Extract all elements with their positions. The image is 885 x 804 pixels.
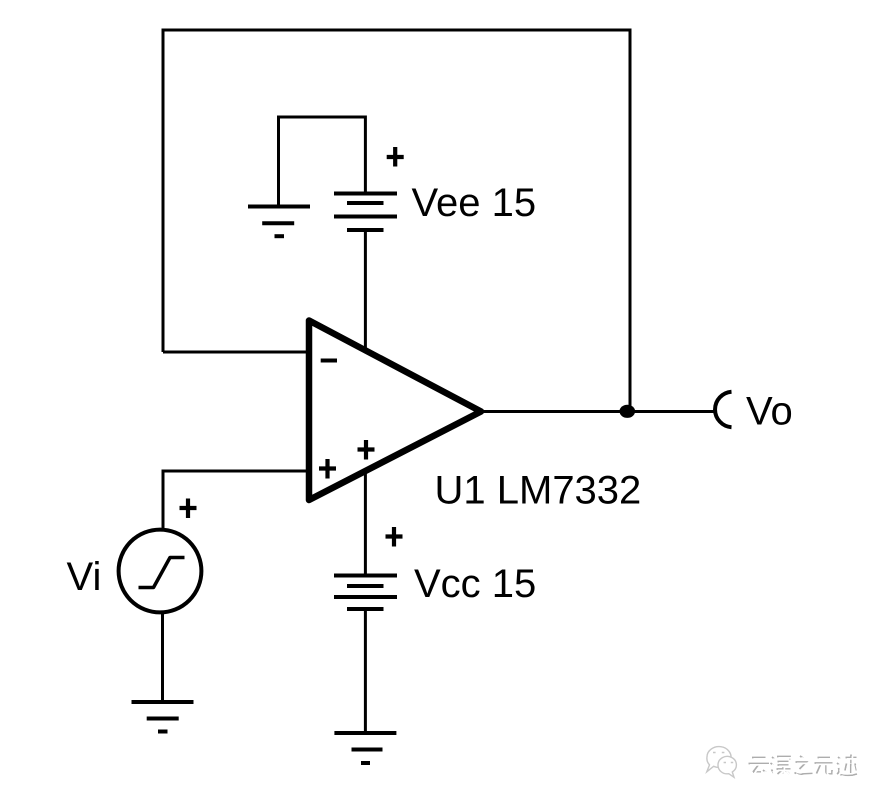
plus label of Vee [387, 147, 404, 167]
watermark wechat icon [707, 747, 737, 778]
battery Vee 15 [334, 194, 397, 231]
port Vo arc [715, 392, 731, 428]
wire Vcc battery to ground [364, 609, 367, 733]
node output junction [620, 405, 636, 418]
svg-text:U1 LM7332: U1 LM7332 [435, 469, 642, 513]
plus label of Vcc [386, 527, 403, 547]
Vi waveform [139, 558, 185, 588]
ground (Vee loop) [248, 207, 310, 237]
op-amp plus supply label [358, 440, 375, 460]
svg-text:Vcc 15: Vcc 15 [414, 562, 536, 606]
op-amp minus input label [321, 359, 337, 363]
wire inverting input [163, 351, 312, 354]
wire Vee top loop to ground [279, 117, 366, 207]
wire Vee battery to op-amp V- pin [364, 230, 367, 352]
battery Vcc 15 [334, 576, 397, 610]
wire feedback loop: inverting input to output node [163, 30, 630, 412]
wire output to Vo port [480, 410, 716, 413]
svg-text:Vo: Vo [746, 390, 793, 434]
wire op-amp V+ pin to Vcc battery [364, 466, 367, 576]
wire noninverting input from Vi [163, 471, 312, 529]
wire Vi bottom to ground [161, 613, 164, 702]
plus label of Vi [180, 499, 197, 519]
svg-text:Vi: Vi [67, 555, 102, 599]
ground (Vcc) [334, 733, 396, 763]
svg-text:Vee 15: Vee 15 [412, 181, 537, 225]
source Vi circle [119, 530, 202, 613]
ground (Vi) [132, 702, 194, 732]
op-amp plus input label [319, 459, 336, 479]
watermark text emboss [749, 755, 858, 776]
op-amp U1 triangle [309, 321, 481, 501]
